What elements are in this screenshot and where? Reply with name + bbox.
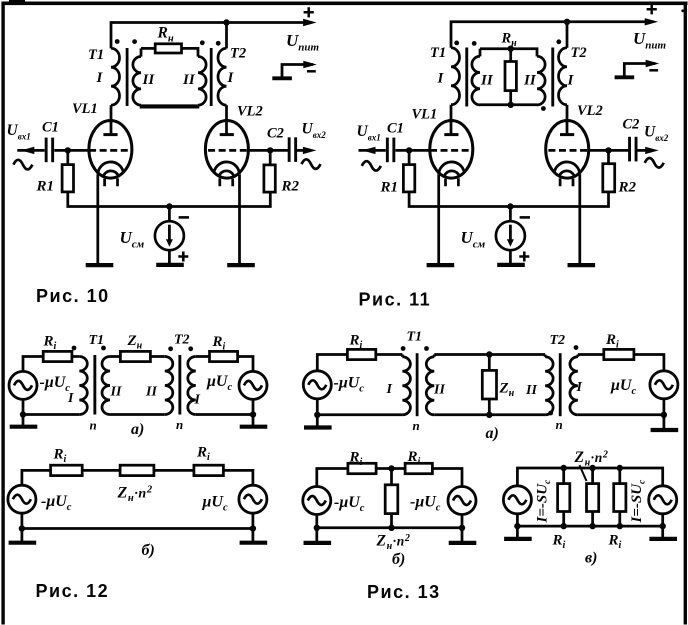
svg-text:C1: C1 — [387, 121, 404, 137]
phase dot T1 secondary (fig11) — [472, 41, 477, 46]
resistor Ri (fig12b right) — [194, 465, 224, 475]
node: bottom box3 (fig13v) — [617, 523, 623, 529]
wire: T1 secondary to Zn (fig12a) — [110, 355, 120, 358]
svg-text:Uпит: Uпит — [286, 31, 320, 54]
svg-text:R1: R1 — [380, 180, 399, 196]
svg-text:Рис. 13: Рис. 13 — [367, 582, 441, 602]
svg-text:Uвх2: Uвх2 — [302, 121, 327, 141]
svg-text:R1: R1 — [36, 179, 55, 195]
svg-text:I: I — [227, 70, 235, 86]
svg-text:VL1: VL1 — [412, 107, 438, 123]
svg-text:Uпит: Uпит — [633, 29, 667, 52]
wire: bottom rail (fig12b) — [22, 513, 253, 528]
triode VL1 — [89, 121, 132, 266]
node: right source bottom (fig13b) — [459, 525, 465, 531]
wire: T1 secondary top to Rn — [141, 47, 155, 50]
ground (fig13a left) — [304, 415, 332, 428]
wire: secondary bottoms joined (fig11) — [480, 103, 537, 106]
wire: Rn to T2 secondary top — [182, 48, 199, 56]
svg-text:C2: C2 — [623, 117, 640, 133]
ground (fig12b left) — [9, 529, 37, 543]
wire: bottom right (fig13a) — [578, 399, 664, 415]
svg-text:Uсм: Uсм — [120, 228, 145, 251]
svg-text:II: II — [110, 385, 122, 400]
node: middle top (fig13b) — [388, 465, 394, 471]
svg-text:II: II — [523, 73, 537, 89]
wire: secondaries bottom (fig13a) — [434, 413, 545, 416]
sine mark output 2 — [302, 159, 321, 169]
svg-text:Ri: Ri — [605, 332, 619, 351]
phase dot T1 secondary (fig12a) — [101, 346, 106, 351]
svg-text:Uвх1: Uвх1 — [7, 122, 31, 142]
resistor Ri (fig13a left) — [347, 349, 375, 359]
ground (fig12a left) — [10, 415, 38, 427]
bias source Usm — [155, 217, 189, 261]
node: source bottom (fig13a right) — [661, 412, 667, 418]
transformer T2 secondary winding II (fig11) — [537, 56, 545, 105]
wire: T1 primary bottom to VL1 anode — [110, 105, 113, 134]
wire: bottom left (fig13a) — [317, 399, 402, 415]
node: left source bottom (fig12b) — [19, 525, 25, 531]
resistor box2 Zn n2 (fig13v) — [587, 468, 599, 526]
resistor Ri (fig13b right) — [405, 463, 432, 473]
wire: source to Ri (fig12b left) — [22, 470, 51, 485]
phase dot T2 primary — [216, 41, 221, 46]
arrow on supply rail — [303, 19, 317, 26]
svg-text:II: II — [480, 73, 494, 89]
svg-text:I: I — [194, 393, 201, 408]
wire: input to C1 (fig11) — [359, 149, 386, 152]
svg-text:Ri: Ri — [53, 447, 67, 466]
resistor Ri (fig12a left) — [43, 351, 72, 361]
wire: T1 secondary top to T2 secondary top (fig13a) — [434, 353, 545, 356]
leader line from Zn n2 label (fig13v) — [580, 465, 587, 481]
transformer T2 secondary winding II (fig13a) — [545, 355, 553, 415]
triode VL1 (fig11) — [430, 121, 473, 266]
wire: T2 primary bottom to VL2 anode — [225, 105, 228, 134]
node: source bottom (fig13a left) — [314, 412, 320, 418]
svg-text:II: II — [525, 383, 537, 398]
node: bottom box1 (fig13v) — [561, 523, 567, 529]
svg-text:T2: T2 — [230, 46, 246, 62]
resistor Zn n2 vertical (fig13b) — [385, 469, 398, 528]
wire: Zn to T2 secondary (fig12a) — [150, 355, 164, 358]
svg-text:T1: T1 — [430, 45, 446, 61]
svg-text:б): б) — [392, 551, 405, 568]
transformer T2 core — [210, 48, 213, 106]
svg-text:Zн·n2: Zн·n2 — [376, 533, 411, 553]
node: junction of rail and T2 primary — [223, 19, 229, 25]
svg-text:-μUc: -μUc — [40, 374, 71, 394]
node: source bottom (fig12a right) — [250, 411, 256, 417]
resistor R1 — [62, 150, 73, 192]
svg-text:R2: R2 — [281, 179, 300, 195]
transformer T1 core (fig13a) — [416, 353, 419, 416]
node: bottom box2 (fig13v) — [589, 523, 595, 529]
transformer T2 secondary winding II (fig12a) — [165, 357, 173, 415]
svg-text:Ri: Ri — [43, 334, 57, 353]
ground (fig13b right) — [449, 528, 477, 543]
wire: Usm to ground (fig11) — [509, 250, 512, 263]
capacitor C2 — [288, 137, 297, 162]
node: grid/R2/C2 junction (fig11) — [605, 147, 611, 153]
svg-text:II: II — [182, 72, 196, 88]
phase dot T2 secondary (fig12a) — [168, 346, 173, 351]
wire: bottom bias rail (fig11) — [409, 192, 608, 207]
ground (fig13v left) — [504, 526, 532, 539]
wire: Ri to source (fig13a right) — [634, 355, 664, 371]
wire: bottom bias rail — [68, 192, 270, 207]
transformer T1 core (fig12a) — [93, 355, 96, 415]
common-terminal symbol with minus (fig11) — [615, 60, 660, 78]
wire: T2 primary to Ri (fig12a right) — [196, 355, 210, 358]
ground (fig12a right) — [240, 415, 268, 427]
phase dot T1 secondary (fig13a) — [424, 346, 429, 351]
wire: bottom right (fig12a) — [196, 399, 253, 414]
triode VL2 (fig11) — [546, 121, 589, 266]
svg-text:в): в) — [585, 550, 597, 567]
wire: secondaries bottom (fig12a) — [110, 413, 165, 416]
ground under VL1 cathode (fig11) — [427, 264, 455, 267]
wire: bottom left (fig12a) — [23, 399, 79, 414]
svg-text:Rн: Rн — [501, 31, 518, 50]
transformer T1 secondary winding II (fig13a) — [426, 355, 434, 415]
wire: +supply rail with drop to T1 primary — [111, 23, 305, 49]
wire: source to Ri (fig12a left) — [23, 357, 43, 372]
triode VL2 — [205, 121, 248, 266]
svg-text:I: I — [386, 382, 393, 397]
input arrow U_vx1 — [21, 147, 35, 154]
resistor Rn — [155, 44, 181, 53]
wire: C2 to output — [297, 149, 306, 152]
svg-text:n: n — [556, 417, 563, 432]
ground under Usm (fig11) — [497, 264, 525, 267]
node: left source bottom (fig13b) — [314, 525, 320, 531]
svg-text:R2: R2 — [618, 180, 637, 196]
resistor Ri (fig13a right) — [604, 349, 634, 359]
svg-text:T2: T2 — [550, 333, 566, 348]
wire: C2 to output (fig11) — [637, 149, 648, 152]
svg-text:C1: C1 — [42, 120, 59, 136]
source uUc (fig12a right) — [239, 371, 267, 399]
transformer T2 primary winding I (fig12a) — [188, 357, 196, 415]
resistor Ri (fig12a right) — [210, 351, 238, 361]
sine mark output 2 (fig11) — [645, 158, 664, 168]
resistor Rn (fig11) — [505, 49, 516, 105]
svg-text:а): а) — [131, 421, 144, 438]
node: Zn bottom (fig13a) — [486, 412, 492, 418]
wire: secondary bottoms joined — [140, 104, 200, 108]
svg-text:μUc: μUc — [202, 494, 228, 514]
transformer T1 primary winding I (fig13a) — [402, 355, 410, 415]
phase dot T1 primary (fig12a) — [72, 346, 77, 351]
wire: rail to T2 primary (fig11) — [566, 22, 569, 48]
svg-text:C2: C2 — [267, 126, 284, 142]
node: Rn top junction (fig11) — [508, 46, 514, 52]
svg-text:а): а) — [486, 425, 499, 442]
transformer T2 secondary winding II — [198, 57, 206, 106]
svg-text:Рис. 11: Рис. 11 — [359, 290, 432, 310]
wire: Ri to Ri (fig13b) — [376, 467, 405, 470]
wire: Zn n2 to Ri (fig12b right) — [154, 469, 194, 472]
transformer T1 primary winding I (fig11) — [451, 48, 460, 105]
wire: bottom rail (fig13v) — [517, 514, 662, 526]
node: grid/R2/C2 junction — [267, 147, 273, 153]
svg-text:Ri: Ri — [196, 445, 210, 464]
wire: rail to T2 primary — [225, 23, 228, 49]
svg-text:Ri: Ri — [608, 533, 622, 552]
phase dot T1 primary (fig13a) — [401, 346, 406, 351]
svg-text:T2: T2 — [571, 45, 587, 61]
node: Zn n2 bottom (fig13b) — [388, 525, 394, 531]
svg-text:Рис. 10: Рис. 10 — [36, 286, 110, 306]
input arrow U_vx1 (fig11) — [362, 147, 376, 154]
transformer T1 core — [126, 48, 129, 106]
resistor Zn (fig13a) — [482, 355, 496, 415]
output arrow U_vx2 (fig11) — [645, 147, 659, 154]
wire: source to Ri (fig13a left) — [317, 355, 347, 371]
svg-text:-μUc: -μUc — [334, 375, 365, 395]
transformer T1 secondary winding II (fig12a) — [102, 357, 110, 415]
svg-text:μUc: μUc — [206, 373, 232, 393]
svg-text:Рис. 12: Рис. 12 — [36, 581, 110, 601]
node: Zn top (fig13a) — [486, 351, 492, 357]
plus sign of supply (fig11) — [647, 4, 657, 14]
svg-text:II: II — [142, 72, 156, 88]
ground under Usm — [156, 264, 184, 267]
sine mark input 1 (fig11) — [362, 161, 381, 171]
transformer T2 primary winding I (fig11) — [559, 48, 568, 105]
transformer T2 core (fig12a) — [178, 355, 181, 415]
ground (fig13v right) — [649, 526, 677, 539]
wire: Ri to T1 primary (fig12a) — [72, 355, 79, 358]
wire: T1 primary bottom to VL1 anode (fig11) — [450, 105, 453, 135]
svg-text:I: I — [567, 73, 575, 89]
transformer T1 secondary winding II — [133, 48, 141, 105]
source -uUc (fig13a left) — [303, 371, 331, 399]
phase dot T2 secondary bottom (fig11) — [541, 106, 546, 111]
svg-text:Uвх2: Uвх2 — [644, 124, 669, 144]
svg-text:n: n — [176, 417, 183, 432]
resistor box3 (fig13v) — [614, 468, 626, 526]
transformer T2 primary winding I (fig13a) — [570, 355, 578, 415]
phase dot T2 secondary bottom (fig13a) — [548, 411, 553, 416]
node: grid/R1/C1 junction (fig11) — [406, 147, 412, 153]
node: right source bottom (fig12b) — [250, 525, 256, 531]
phase dot T2 primary (fig12a) — [188, 346, 193, 351]
transformer T1 primary winding I — [111, 48, 120, 105]
wire: top rail (fig13v) — [517, 468, 662, 486]
svg-text:T1: T1 — [407, 330, 423, 345]
source uUc (fig13a right) — [650, 371, 678, 399]
svg-text:μUc: μUc — [610, 377, 636, 397]
wire: T2 primary to Ri (fig13a right) — [578, 353, 604, 356]
phase dot T1 primary — [115, 39, 120, 44]
ground under VL2 cathode (fig11) — [568, 264, 596, 267]
resistor Zn n2 (fig12b) — [120, 465, 154, 475]
svg-text:Zн·n2: Zн·n2 — [117, 485, 153, 505]
capacitor C2 (fig11) — [628, 137, 637, 162]
svg-text:I=-SUc: I=-SUc — [629, 479, 647, 524]
output arrow U_vx2 — [303, 147, 317, 154]
wire: +supply rail with drop to T1 primary (fig11) — [451, 22, 647, 48]
svg-text:Ri: Ri — [552, 533, 566, 552]
phase dot T1 secondary — [132, 39, 137, 44]
svg-text:I=-SUc: I=-SUc — [535, 479, 553, 524]
ground (fig12b right) — [240, 529, 268, 543]
svg-text:VL2: VL2 — [237, 103, 263, 119]
node: bottom right source (fig13v) — [660, 523, 666, 529]
svg-text:I: I — [67, 391, 74, 406]
svg-text:Ri: Ri — [349, 450, 363, 469]
svg-text:T1: T1 — [88, 47, 104, 63]
node: top rail box1 (fig13v) — [561, 465, 567, 471]
wire: Ri to Zn n2 (fig12b) — [82, 469, 120, 472]
node: bias rail / Usm junction — [166, 203, 172, 209]
svg-text:VL2: VL2 — [577, 103, 603, 119]
wire: VL1 grid lead — [54, 149, 89, 152]
phase dot T2 primary (fig11) — [556, 39, 561, 44]
svg-text:Rн: Rн — [157, 25, 174, 45]
resistor R1 (fig11) — [403, 150, 414, 192]
transformer T1 primary winding I (fig12a) — [79, 357, 87, 415]
wire: VL1 grid lead (fig11) — [396, 149, 431, 152]
wire: Ri to T1 primary (fig13a) — [376, 353, 403, 356]
transformer T2 primary winding I — [218, 48, 227, 105]
svg-text:T2: T2 — [174, 333, 190, 348]
resistor R2 — [264, 150, 275, 192]
svg-text:II: II — [145, 385, 157, 400]
wire: Ri to source (fig12a right) — [238, 357, 253, 372]
capacitor C1 — [45, 138, 54, 163]
svg-text:Ri: Ri — [407, 449, 421, 468]
svg-text:n: n — [90, 418, 97, 433]
source -uUc (fig13b left) — [303, 487, 331, 515]
wire: bottom rail (fig13b) — [317, 515, 462, 528]
svg-text:б): б) — [142, 542, 155, 559]
transformer T1 secondary winding II (fig11) — [472, 49, 480, 105]
capacitor C1 (fig11) — [386, 138, 395, 163]
node: bias rail / Usm junction (fig11) — [507, 203, 513, 209]
phase dot T2 secondary — [200, 40, 205, 45]
svg-text:VL1: VL1 — [72, 101, 98, 117]
svg-text:T1: T1 — [89, 333, 105, 348]
svg-text:I: I — [437, 71, 445, 87]
transformer T2 core (fig11) — [551, 48, 554, 107]
source -uUc (fig13b right) — [448, 487, 476, 515]
svg-text:Ri: Ri — [349, 333, 363, 352]
source -uUc (fig12b left) — [8, 485, 36, 513]
ground under VL1 cathode — [86, 264, 114, 267]
svg-text:-μUc: -μUc — [41, 493, 72, 513]
wire: source to Ri (fig13b left) — [317, 469, 348, 487]
transformer T1 core (fig11) — [465, 48, 468, 107]
svg-text:Uвх1: Uвх1 — [357, 123, 381, 143]
svg-text:Ri: Ri — [212, 334, 226, 353]
wire: Ri to source (fig12b right) — [223, 470, 253, 485]
source I=-SUc (fig13v right) — [649, 486, 677, 514]
common-terminal symbol with minus — [272, 61, 317, 79]
wire: Usm to ground — [168, 250, 171, 263]
svg-text:Zн: Zн — [127, 333, 143, 352]
resistor Zn (fig12a) — [120, 351, 150, 361]
wire: T2 primary bottom to VL2 anode (fig11) — [566, 105, 569, 135]
resistor box1 (fig13v) — [558, 468, 570, 526]
wire: VL2 grid lead — [248, 149, 288, 152]
plus sign of supply — [304, 7, 314, 17]
bias source Usm (fig11) — [496, 217, 530, 261]
arrow on supply rail (fig11) — [645, 18, 659, 25]
svg-text:Zн: Zн — [499, 381, 515, 400]
sine mark input 1 — [13, 160, 32, 170]
source -uUc (fig12a left) — [9, 371, 37, 399]
wire: VL2 grid lead (fig11) — [589, 149, 629, 152]
transformer T2 core (fig13a) — [559, 353, 562, 416]
ground (fig13a right) — [651, 415, 679, 430]
node: top rail box3 (fig13v) — [617, 465, 623, 471]
node: junction of rail and T2 primary (fig11) — [564, 19, 570, 25]
node: grid/R1/C1 junction — [65, 147, 71, 153]
node: bottom left source (fig13v) — [514, 523, 520, 529]
svg-text:I: I — [576, 380, 583, 395]
source I=-SUc (fig13v left) — [503, 486, 531, 514]
resistor Ri (fig13b left) — [348, 463, 376, 473]
wire: secondary tops with Rn tap (fig11) — [480, 49, 537, 57]
resistor R2 (fig11) — [603, 150, 615, 192]
node: Rn bottom junction (fig11) — [508, 102, 514, 108]
ground (fig13b left) — [304, 528, 332, 543]
wire: rail to Usm source — [168, 207, 171, 222]
wire: Ri to source (fig13b right) — [432, 469, 462, 487]
resistor Ri (fig12b left) — [51, 465, 83, 475]
phase dot T2 primary (fig13a) — [574, 345, 579, 350]
svg-text:II: II — [433, 383, 445, 398]
phase dot T1 primary (fig11) — [454, 41, 459, 46]
svg-text:I: I — [96, 70, 104, 86]
source uUc (fig12b right) — [239, 485, 267, 513]
wire: input to C1 — [17, 149, 44, 152]
svg-text:Uсм: Uсм — [461, 228, 486, 251]
svg-text:-μUc: -μUc — [410, 494, 441, 514]
node: top rail box2 (fig13v) — [589, 465, 595, 471]
node: source bottom (fig12a left) — [20, 411, 26, 417]
wire: rail to Usm source (fig11) — [509, 207, 512, 222]
svg-text:n: n — [413, 418, 420, 433]
svg-text:-μUc: -μUc — [334, 494, 365, 514]
ground under VL2 cathode — [227, 264, 255, 267]
